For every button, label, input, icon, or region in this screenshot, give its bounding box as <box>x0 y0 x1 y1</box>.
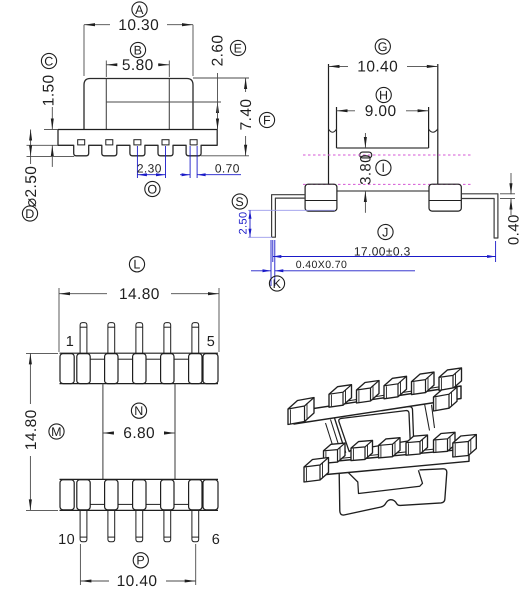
svg-text:⌀2.50: ⌀2.50 <box>23 166 40 208</box>
svg-text:6.80: 6.80 <box>123 425 155 442</box>
3d view upper comb bar <box>294 386 461 424</box>
svg-text:O: O <box>147 182 157 196</box>
dimension 0.70 line <box>180 174 190 176</box>
svg-text:14.80: 14.80 <box>23 409 40 450</box>
dimension 0.40 extension ticks <box>500 193 515 195</box>
label circle D <box>22 206 37 221</box>
svg-text:9.00: 9.00 <box>365 103 397 120</box>
dimension C extension lines <box>44 129 58 131</box>
top view lower pins <box>80 510 87 541</box>
label circle P <box>133 553 148 568</box>
dimension E line <box>217 73 219 102</box>
top view upper band top edge <box>60 352 219 354</box>
label circle H <box>376 87 391 102</box>
top view upper band tabs <box>60 354 74 384</box>
top view upper band notch lines <box>90 358 104 360</box>
svg-text:G: G <box>378 40 388 54</box>
label circle L <box>129 257 144 272</box>
dimension S extension lines <box>248 209 335 211</box>
dimension P extension lines <box>79 544 81 585</box>
3d view lower comb teeth <box>324 443 346 463</box>
dimension H line <box>337 110 356 112</box>
dimension F line <box>245 78 247 92</box>
top view lower band bottom edge <box>60 509 219 511</box>
svg-text:7.40: 7.40 <box>238 99 255 131</box>
dimension B extension lines <box>105 61 107 78</box>
3d view left column lines <box>331 420 342 453</box>
dimension 2.30 extension lines <box>136 146 138 178</box>
svg-text:B: B <box>134 43 143 57</box>
dimension K extension lines <box>270 240 272 286</box>
side view left leg <box>272 195 306 238</box>
dimension C line <box>51 107 53 130</box>
svg-text:10.40: 10.40 <box>357 59 398 76</box>
svg-text:J: J <box>382 225 389 239</box>
svg-text:10.30: 10.30 <box>118 17 159 34</box>
label circle F <box>259 112 274 127</box>
dimension 0.40 line <box>510 173 512 194</box>
front view flange inner vertical left <box>105 79 107 130</box>
svg-text:6: 6 <box>212 532 220 548</box>
svg-text:A: A <box>135 3 144 17</box>
label circle M <box>49 424 64 439</box>
3d view winding window outer frame <box>335 407 414 453</box>
side view right flange slot arc <box>429 129 438 132</box>
label circle J <box>378 224 393 239</box>
svg-text:H: H <box>379 88 388 102</box>
3d view base pedestal <box>348 470 423 493</box>
side view pink center line upper <box>303 154 471 156</box>
dimension L line <box>59 293 107 295</box>
svg-text:2.30: 2.30 <box>137 161 162 175</box>
svg-text:17.00±0.3: 17.00±0.3 <box>354 244 411 258</box>
dimension J extension lines <box>272 240 274 262</box>
svg-text:M: M <box>51 425 62 439</box>
dimension I line <box>364 133 366 148</box>
front view flange top edge <box>58 129 217 131</box>
side view left flange inner edge <box>336 107 338 148</box>
dimension B line <box>106 64 117 66</box>
dimension M line <box>29 353 31 404</box>
3d view base plate <box>339 469 447 515</box>
svg-text:2.60: 2.60 <box>210 35 227 67</box>
front view winding line <box>106 101 221 103</box>
top view lower band top edge <box>60 478 219 480</box>
front view flange outline <box>58 130 217 156</box>
dimension L extension lines <box>58 288 60 352</box>
3d view lower left end tab <box>304 458 329 483</box>
3d view lower right end tab <box>453 435 477 458</box>
side view right pad <box>429 184 461 211</box>
dimension S line <box>249 210 251 237</box>
side view right flange inner edge <box>428 107 430 148</box>
dimension D line <box>30 130 32 157</box>
label circle A <box>132 2 147 17</box>
3d view upper comb gap back lines <box>346 399 361 401</box>
svg-text:P: P <box>136 554 145 568</box>
svg-text:2.50: 2.50 <box>238 211 250 234</box>
3d view upper right end tab <box>434 387 458 411</box>
dimension M extension lines <box>26 352 58 354</box>
3d view winding window aperture <box>339 411 410 452</box>
dimension F extension lines <box>193 77 249 79</box>
svg-text:3.80: 3.80 <box>358 154 375 185</box>
svg-text:5: 5 <box>207 334 215 350</box>
3d view upper comb teeth <box>329 385 352 408</box>
svg-text:F: F <box>263 113 271 127</box>
top view lower band tabs <box>60 480 74 510</box>
label circle I <box>376 160 391 175</box>
dimension A extension lines <box>83 25 85 76</box>
front view body outline <box>84 79 193 130</box>
dimension K line <box>251 270 271 272</box>
side view left flange slot arc <box>329 129 337 132</box>
svg-text:S: S <box>235 195 244 209</box>
side view left pad <box>305 184 337 211</box>
dimension J line <box>273 256 496 258</box>
svg-text:0.40: 0.40 <box>506 214 519 245</box>
side view winding floor <box>337 147 429 149</box>
side view right leg <box>461 194 498 238</box>
dimension P line <box>80 580 109 582</box>
3d view right column lines <box>425 404 430 431</box>
side view wire slot pill <box>360 152 372 158</box>
dimension G line <box>329 65 349 67</box>
top view barrel right edge <box>174 384 176 480</box>
svg-text:D: D <box>25 207 34 221</box>
label circle O <box>145 181 160 196</box>
front view flange inner vertical right <box>168 79 170 130</box>
label circle N <box>131 403 146 418</box>
svg-text:10.40: 10.40 <box>117 573 158 590</box>
svg-text:C: C <box>44 54 53 68</box>
label circle G <box>375 39 390 54</box>
top view lower band notch lines <box>90 503 104 505</box>
3d view lower comb bar <box>310 449 469 476</box>
front view pin squares <box>78 140 85 145</box>
svg-text:5.80: 5.80 <box>122 57 154 74</box>
svg-text:1: 1 <box>66 334 74 350</box>
label circle E <box>230 40 245 55</box>
side view left flange outer edge <box>328 64 330 184</box>
svg-text:E: E <box>234 41 243 55</box>
3d view lower comb gap back lines <box>340 457 355 459</box>
svg-text:0.70: 0.70 <box>215 162 240 176</box>
3d view upper left end tab <box>288 398 314 425</box>
dimension 0.70 extension lines <box>189 146 191 178</box>
label circle C <box>41 53 56 68</box>
top view upper band bottom edge <box>60 383 219 385</box>
svg-text:14.80: 14.80 <box>119 286 160 303</box>
svg-text:10: 10 <box>58 532 75 548</box>
dimension A line <box>84 24 110 26</box>
label circle S <box>232 194 247 209</box>
top view upper pins <box>80 323 87 354</box>
svg-text:I: I <box>381 161 385 175</box>
svg-text:1.50: 1.50 <box>41 74 58 106</box>
svg-text:N: N <box>134 404 143 418</box>
svg-text:0.40X0.70: 0.40X0.70 <box>296 259 347 271</box>
dimension N line <box>103 432 114 434</box>
side view pink center line lower <box>303 183 471 185</box>
side view right flange outer edge <box>437 64 439 184</box>
svg-text:K: K <box>273 277 282 291</box>
svg-text:L: L <box>133 258 140 272</box>
top view barrel left edge <box>102 384 104 480</box>
label circle B <box>130 42 145 57</box>
dimension 2.30 line <box>137 174 165 176</box>
dimension D extension line <box>27 155 75 157</box>
label circle K <box>269 276 284 291</box>
side view barrel bottom <box>337 190 429 192</box>
